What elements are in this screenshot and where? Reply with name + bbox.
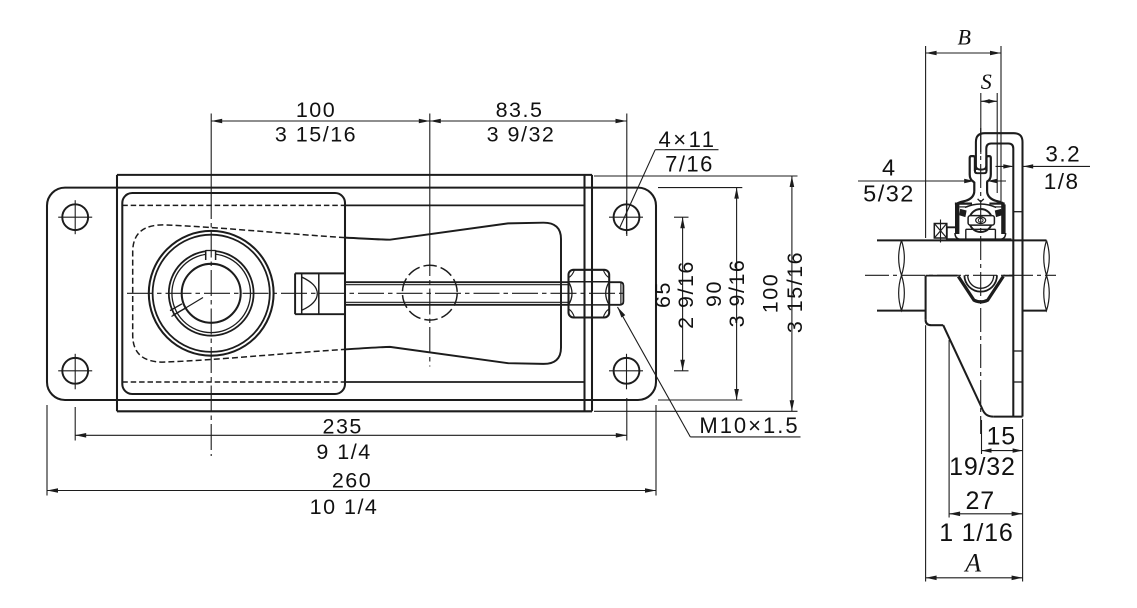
bolt hole 3 vertical centerline [626, 200, 628, 234]
nut top-right corner arc [603, 270, 609, 278]
screw washer face [294, 273, 296, 314]
bearing vertical centerline ext [210, 114, 212, 194]
svg-text:1 1/16: 1 1/16 [939, 519, 1013, 547]
rod upper thread line [345, 284, 569, 286]
ext line A left [925, 325, 927, 581]
ext line right shared [1022, 419, 1024, 582]
mid position centerline [429, 250, 431, 367]
inner ring right side [994, 229, 996, 239]
bearing horizontal centerline [127, 292, 628, 294]
housing wing top edge [926, 275, 958, 277]
ext line 90 top [658, 187, 742, 189]
label 4x11 underline [655, 149, 718, 151]
dim line 100 right [791, 176, 793, 411]
set screw socket outer [976, 217, 986, 224]
screw head facet line [318, 273, 320, 314]
tongue bell left flare [957, 192, 974, 204]
ext line 260 right [655, 405, 657, 496]
label M10 leader [618, 307, 691, 437]
bolt hole 2 [62, 358, 88, 384]
ext line 235 left [74, 407, 76, 441]
bottom rail flange hidden edge [122, 381, 345, 383]
lock screw cross 2 [934, 224, 947, 239]
outer ring raceway arc [965, 204, 996, 208]
tongue bell right flare [987, 192, 1003, 204]
housing top edge right of boss [1003, 275, 1013, 277]
rail top bend outer [976, 133, 1023, 412]
svg-text:65: 65 [651, 281, 675, 308]
ext line 27 left [948, 340, 950, 518]
ext line 100 top [594, 175, 798, 177]
bearing outer ring inner circle [153, 235, 270, 352]
svg-text:27: 27 [965, 487, 994, 515]
inner ring bottom edge [966, 228, 996, 230]
set screw notch right edge [215, 250, 217, 260]
rod tip chamfer line [620, 282, 622, 305]
nut top-left corner arc [569, 270, 575, 278]
bolt hole 1 vertical centerline [74, 200, 76, 234]
frame right end inner edge [583, 175, 585, 411]
shaft bottom edge left [877, 310, 926, 312]
rail wall tick 2 [1013, 350, 1022, 352]
dim line 260 [47, 490, 656, 492]
side view centerline [980, 128, 982, 434]
set screw notch top edge [206, 250, 216, 252]
nut bottom-right corner arc [603, 309, 609, 318]
bolt hole 2 horizontal centerline [58, 370, 92, 372]
svg-text:15: 15 [986, 423, 1015, 451]
screw head inner face [301, 273, 303, 314]
ext line 100 bottom [594, 410, 798, 412]
dim line 27 [949, 513, 1023, 515]
svg-text:3.2: 3.2 [1045, 142, 1081, 167]
bolt hole 4 [614, 358, 640, 384]
rail left wall tip [976, 166, 986, 170]
frame top rail edge [117, 174, 592, 176]
svg-text:5/32: 5/32 [863, 181, 915, 207]
housing bottom corner [983, 410, 994, 417]
label 4 arrow shaft [987, 180, 1006, 182]
bearing bore circle [182, 264, 241, 323]
lock screw centerline [940, 220, 942, 243]
nut upper facet line [569, 281, 610, 283]
bearing vertical centerline [210, 193, 212, 456]
set screw notch left edge [205, 250, 207, 260]
tongue cup right lip [987, 156, 991, 191]
bolt hole 1 [62, 204, 88, 230]
rail top bend inner [986, 144, 1013, 417]
dim line 83.5 top [430, 120, 627, 122]
set screw notch mask [206, 250, 215, 260]
shaft top edge [877, 239, 1047, 241]
nut bottom-left corner arc [569, 309, 575, 318]
mounting plate outline [47, 188, 656, 400]
svg-text:4×11: 4×11 [659, 127, 717, 152]
cap right wall foot [1000, 233, 1006, 239]
frame right end outer edge [591, 175, 593, 411]
screw head chamfer arc [302, 277, 318, 310]
shaft left break lower [899, 275, 905, 310]
cap shoulder left [955, 203, 972, 205]
svg-text:4: 4 [882, 155, 897, 181]
cap right wall [1001, 204, 1005, 234]
screw head top edge [295, 272, 345, 274]
bolt hole 3 horizontal centerline [609, 216, 643, 218]
label 4 dim line [858, 180, 973, 182]
dim line 100 top [211, 120, 430, 122]
bore arc inner [968, 275, 994, 288]
set screw pocket [968, 216, 994, 226]
dim line 65 [682, 217, 684, 371]
svg-text:19/32: 19/32 [949, 453, 1016, 481]
cap bottom edge [947, 238, 1012, 240]
ext line B right [1000, 46, 1002, 201]
frame bottom rail edge [117, 410, 592, 412]
seal left [959, 209, 966, 217]
bearing inner ring outer circle [169, 251, 254, 336]
svg-text:90: 90 [702, 280, 726, 307]
set screw socket inner [978, 218, 983, 222]
tongue slot bottom [975, 171, 987, 173]
collar slot line [172, 298, 204, 317]
bolt hole 3 [614, 204, 640, 230]
label M10 leader arrow [618, 307, 626, 318]
housing sloped side [943, 325, 983, 410]
nut outline [569, 270, 610, 318]
svg-text:7/16: 7/16 [665, 152, 714, 177]
dim line A [926, 577, 1023, 579]
bottom rail flange visible edge [345, 381, 585, 383]
dim line 235 [75, 434, 627, 436]
shaft centerline [865, 274, 1056, 276]
frame left end edge [116, 175, 118, 411]
bolt hole 4 horizontal centerline [609, 370, 643, 372]
svg-text:3 15/16: 3 15/16 [783, 251, 807, 333]
cartridge housing outline [122, 193, 345, 394]
ext line B left [925, 46, 927, 238]
bolt hole 4 vertical centerline [626, 354, 628, 390]
rod lower edge [345, 304, 569, 306]
frame window hidden outline [133, 225, 345, 362]
rod upper edge [345, 281, 569, 283]
label 3.2 left shaft [996, 165, 1013, 167]
svg-text:S: S [981, 69, 994, 94]
ext line 235 right [626, 398, 628, 441]
svg-text:260: 260 [332, 469, 372, 493]
mid position centerline ext [429, 114, 431, 251]
svg-text:100: 100 [759, 273, 783, 313]
cap left wall foot [955, 233, 961, 239]
label 3.2 bar [1023, 165, 1090, 167]
label M10 underline [690, 436, 800, 438]
collar outline [947, 227, 955, 239]
dim line 15 [982, 450, 1023, 452]
nut lower facet line [569, 304, 610, 306]
rail wall tick 3 [1013, 381, 1022, 383]
svg-text:1/8: 1/8 [1044, 169, 1080, 194]
lock screw cross 1 [934, 224, 947, 239]
rail bottom outer corner [1021, 412, 1023, 417]
ext line S left [980, 93, 982, 154]
hex boss vee [958, 276, 1003, 302]
rail wall tick 1 [1013, 211, 1022, 213]
collar slot tick 2 [173, 309, 185, 316]
dim line 90 [736, 188, 738, 400]
svg-text:235: 235 [323, 414, 363, 438]
access hole phantom circle [402, 265, 457, 320]
svg-text:3 9/32: 3 9/32 [487, 123, 556, 147]
svg-text:M10×1.5: M10×1.5 [699, 413, 799, 438]
nut left chamfer arc [569, 282, 573, 305]
rod tip outline [609, 282, 623, 305]
inner ring left side [965, 229, 967, 239]
housing wing left wall [925, 276, 927, 320]
rail bottom edge [993, 416, 1022, 418]
bolt hole 1 horizontal centerline [58, 216, 92, 218]
top rail flange visible edge [345, 204, 585, 206]
shaft right break upper [1044, 240, 1050, 275]
tongue neck vee [978, 199, 984, 202]
svg-text:83.5: 83.5 [496, 98, 544, 122]
lock screw outline [934, 224, 947, 239]
frame window visible outline [345, 223, 561, 364]
nut right chamfer arc [606, 282, 610, 305]
ext line 65 top [674, 216, 689, 218]
shaft right break lower [1044, 275, 1050, 310]
svg-text:100: 100 [296, 98, 336, 122]
cap inner top edge left [960, 206, 968, 208]
cap left wall [955, 204, 959, 234]
tongue cup left lip [970, 156, 975, 191]
ext line 90 bottom [658, 399, 742, 401]
cap inner top edge right [994, 206, 1002, 208]
dim line S [981, 100, 997, 102]
ext line 15 left [981, 420, 983, 454]
screw head bottom edge [295, 313, 345, 315]
ext line hole top right [626, 114, 628, 237]
label 4x11 leader [620, 150, 655, 227]
shaft bottom edge right [1023, 310, 1046, 312]
ext line 260 left [46, 405, 48, 496]
housing wing bottom corner [926, 320, 931, 325]
svg-text:3 9/16: 3 9/16 [725, 259, 749, 328]
ext line S right [996, 93, 998, 193]
housing wing bottom edge [931, 324, 943, 326]
top rail flange hidden edge [122, 204, 345, 206]
svg-text:10 1/4: 10 1/4 [310, 495, 379, 519]
bolt hole 2 vertical centerline [74, 354, 76, 390]
shaft left break upper [899, 240, 905, 275]
bearing inner ring step circle [172, 254, 251, 333]
seal right [995, 209, 1002, 217]
cap shoulder right [989, 203, 1004, 205]
svg-text:A: A [963, 549, 982, 578]
bearing outer ring outer circle [149, 231, 274, 356]
svg-text:9 1/4: 9 1/4 [316, 440, 371, 464]
svg-text:3 15/16: 3 15/16 [275, 123, 357, 147]
bearing ball [969, 209, 992, 232]
bore arc outer [964, 275, 997, 291]
svg-text:B: B [958, 25, 973, 50]
ext line 65 bottom [674, 370, 689, 372]
svg-text:2 9/16: 2 9/16 [674, 260, 698, 329]
collar slot tick 1 [170, 304, 182, 311]
rod lower thread line [345, 301, 569, 303]
dim line B [926, 52, 1001, 54]
